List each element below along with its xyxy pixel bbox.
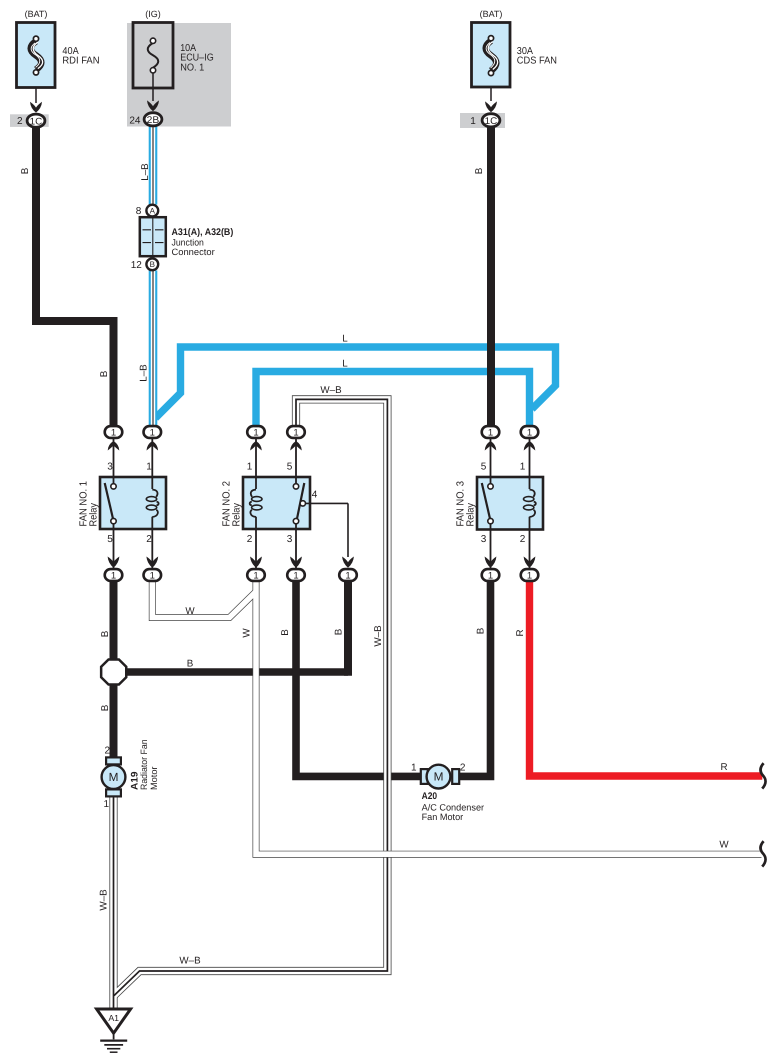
svg-text:2B: 2B bbox=[147, 115, 160, 126]
svg-text:1C: 1C bbox=[30, 116, 43, 127]
svg-text:(IG): (IG) bbox=[145, 9, 161, 19]
svg-text:1: 1 bbox=[111, 571, 116, 582]
svg-text:W–B: W–B bbox=[373, 625, 384, 647]
svg-text:B: B bbox=[476, 627, 487, 634]
svg-text:RDI FAN: RDI FAN bbox=[62, 56, 99, 67]
svg-text:1: 1 bbox=[470, 116, 476, 127]
svg-text:M: M bbox=[434, 770, 444, 784]
svg-text:W: W bbox=[719, 840, 729, 851]
svg-text:A20: A20 bbox=[422, 791, 438, 802]
svg-text:2: 2 bbox=[247, 534, 253, 545]
svg-text:(BAT): (BAT) bbox=[480, 9, 503, 19]
svg-text:M: M bbox=[109, 770, 119, 784]
svg-text:B: B bbox=[99, 370, 110, 377]
svg-text:1: 1 bbox=[150, 571, 155, 582]
svg-text:W–B: W–B bbox=[99, 889, 110, 911]
svg-text:1: 1 bbox=[488, 428, 493, 439]
svg-text:1: 1 bbox=[520, 462, 526, 473]
svg-text:1: 1 bbox=[253, 571, 258, 582]
svg-text:2: 2 bbox=[520, 534, 526, 545]
svg-text:R: R bbox=[720, 762, 727, 773]
svg-text:B: B bbox=[334, 628, 345, 635]
svg-text:1: 1 bbox=[527, 428, 532, 439]
svg-text:1: 1 bbox=[253, 428, 258, 439]
svg-text:1: 1 bbox=[146, 462, 152, 473]
svg-text:24: 24 bbox=[129, 115, 141, 126]
svg-text:Relay: Relay bbox=[466, 502, 477, 526]
svg-text:L: L bbox=[342, 333, 348, 344]
svg-text:B: B bbox=[187, 658, 194, 669]
svg-text:5: 5 bbox=[107, 534, 113, 545]
svg-text:A1: A1 bbox=[108, 1013, 119, 1023]
svg-text:Junction: Junction bbox=[172, 238, 204, 248]
svg-text:B: B bbox=[474, 167, 485, 174]
svg-text:1: 1 bbox=[527, 571, 532, 582]
svg-text:B: B bbox=[100, 630, 111, 637]
svg-text:8: 8 bbox=[136, 206, 142, 217]
svg-text:1: 1 bbox=[111, 428, 116, 439]
svg-text:1: 1 bbox=[411, 762, 417, 773]
svg-text:W: W bbox=[185, 606, 195, 617]
svg-text:5: 5 bbox=[287, 462, 293, 473]
svg-text:(BAT): (BAT) bbox=[25, 9, 48, 19]
svg-text:R: R bbox=[515, 629, 526, 636]
svg-text:Fan Motor: Fan Motor bbox=[422, 812, 464, 822]
svg-text:1: 1 bbox=[293, 428, 298, 439]
svg-text:CDS FAN: CDS FAN bbox=[517, 56, 557, 67]
svg-text:A/C Condenser: A/C Condenser bbox=[422, 803, 485, 813]
svg-text:Motor: Motor bbox=[149, 767, 159, 791]
svg-text:3: 3 bbox=[287, 534, 293, 545]
svg-text:B: B bbox=[100, 704, 111, 711]
svg-text:NO. 1: NO. 1 bbox=[180, 63, 204, 74]
svg-text:1: 1 bbox=[345, 571, 350, 582]
svg-text:L–B: L–B bbox=[140, 163, 151, 181]
svg-text:1: 1 bbox=[104, 799, 110, 810]
svg-text:A: A bbox=[150, 207, 156, 216]
svg-text:3: 3 bbox=[481, 534, 487, 545]
svg-text:1: 1 bbox=[150, 428, 155, 439]
svg-text:5: 5 bbox=[481, 462, 487, 473]
svg-text:L: L bbox=[342, 359, 348, 370]
svg-text:2: 2 bbox=[17, 116, 23, 127]
svg-text:1: 1 bbox=[293, 571, 298, 582]
svg-text:B: B bbox=[20, 167, 31, 174]
svg-text:Radiator Fan: Radiator Fan bbox=[139, 739, 149, 790]
svg-text:1C: 1C bbox=[485, 116, 498, 127]
svg-text:4: 4 bbox=[312, 489, 318, 500]
svg-text:W–B: W–B bbox=[179, 955, 201, 966]
svg-text:2: 2 bbox=[146, 534, 152, 545]
svg-text:Connector: Connector bbox=[172, 247, 215, 257]
svg-text:B: B bbox=[280, 629, 291, 636]
svg-text:A31(A), A32(B): A31(A), A32(B) bbox=[172, 227, 234, 238]
svg-text:3: 3 bbox=[107, 462, 113, 473]
svg-text:12: 12 bbox=[131, 260, 143, 271]
svg-text:2: 2 bbox=[105, 745, 111, 756]
svg-text:B: B bbox=[150, 260, 155, 269]
svg-text:W: W bbox=[242, 628, 253, 638]
svg-text:W–B: W–B bbox=[320, 385, 342, 396]
svg-text:1: 1 bbox=[247, 462, 253, 473]
svg-text:Relay: Relay bbox=[89, 502, 100, 526]
svg-text:2: 2 bbox=[460, 762, 466, 773]
svg-text:Relay: Relay bbox=[232, 502, 243, 526]
svg-text:1: 1 bbox=[488, 571, 493, 582]
svg-text:L–B: L–B bbox=[139, 364, 150, 382]
